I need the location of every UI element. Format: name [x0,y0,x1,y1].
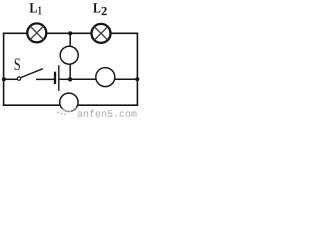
watermark erase effect over bottom meter arc [56,109,71,115]
label S [15,58,20,70]
label L2 [93,3,107,15]
label L1 [30,3,42,14]
wire: right side of loop [136,33,138,107]
node: top junction [68,31,72,35]
switch S blade [21,69,43,78]
node: left edge junction [2,77,6,81]
meter (ammeter) on middle row [96,68,115,87]
wire: left side of loop [3,33,5,107]
wire: center junction to ammeter [70,78,97,80]
lamp L2 [92,24,111,43]
wire: middle vertical branch [69,33,71,79]
watermark text anfen5.com [78,110,137,117]
background [0,0,140,119]
lamp L1 [27,23,46,42]
wire: middle row, left stub to switch [4,78,18,80]
battery negative plate (short thick) [54,72,56,84]
switch S pivot [17,77,20,80]
meter on bottom wire [60,93,78,111]
node: right edge junction [135,77,139,81]
wire: ammeter to right side [114,78,138,80]
wire: bottom side of loop [3,104,138,106]
meter (voltmeter) on middle branch [60,46,78,64]
wire: top side of loop [3,32,138,34]
wire: battery to center junction [59,78,70,80]
watermark dots [57,112,58,113]
wire: switch contact to battery [36,78,55,80]
battery positive plate (long thin) [58,65,60,91]
node: center junction [68,77,72,81]
